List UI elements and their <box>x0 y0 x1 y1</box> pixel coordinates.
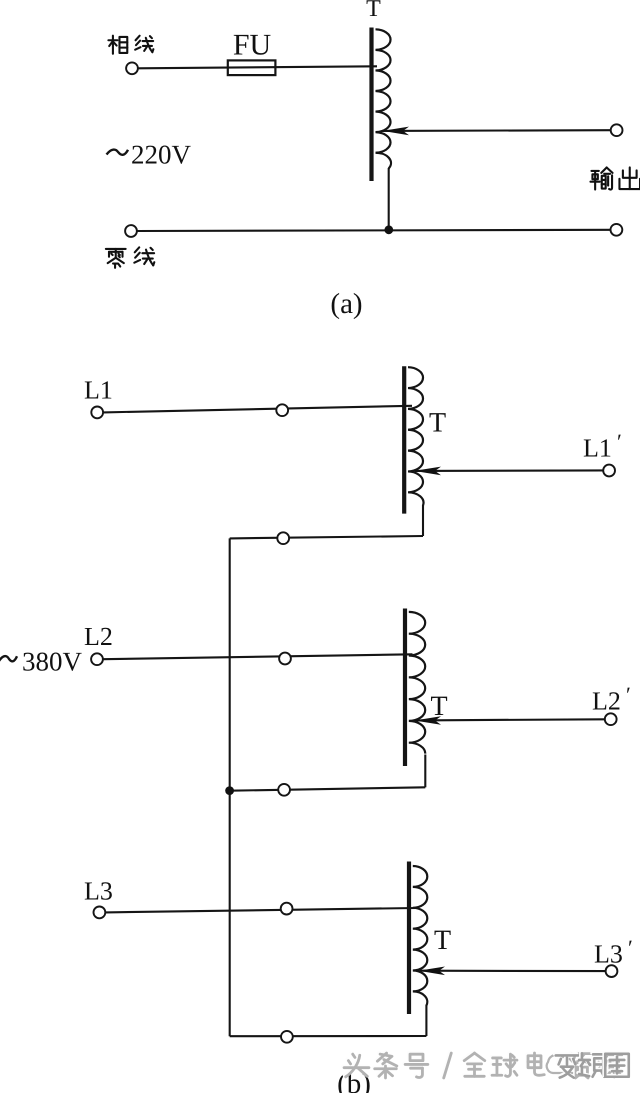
svg-text:L2: L2 <box>84 622 113 651</box>
svg-text:L1: L1 <box>583 434 612 463</box>
svg-text:380V: 380V <box>22 647 83 677</box>
svg-text:′: ′ <box>617 429 622 454</box>
svg-text:FU: FU <box>233 29 272 62</box>
svg-text:T: T <box>430 691 447 722</box>
svg-text:(b): (b) <box>337 1068 371 1093</box>
svg-text:L2: L2 <box>592 687 621 716</box>
svg-text:L1: L1 <box>84 376 113 405</box>
svg-text:(a): (a) <box>330 288 362 320</box>
svg-text:T: T <box>429 408 446 439</box>
svg-text:T: T <box>434 925 451 956</box>
svg-text:L3: L3 <box>594 940 623 969</box>
svg-text:L3: L3 <box>84 877 113 906</box>
svg-text:′: ′ <box>628 935 633 960</box>
svg-text:′: ′ <box>626 682 631 707</box>
svg-text:T: T <box>366 0 381 22</box>
svg-text:220V: 220V <box>131 140 192 170</box>
